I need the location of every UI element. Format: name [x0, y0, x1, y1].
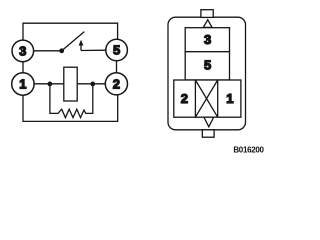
svg-text:5: 5 [113, 43, 120, 58]
svg-text:2: 2 [181, 91, 188, 106]
wire: terminal 1 through coil to terminal 2 [34, 83, 105, 85]
wire: bottom loop terminal 1 to terminal 2 [23, 95, 118, 122]
node: junction dot at terminal 1 side of coil [48, 82, 53, 87]
terminal cavity 3 [185, 28, 229, 52]
cavity divider right [217, 80, 219, 117]
terminal 1 [12, 73, 34, 95]
wire: terminal 3 to switch pivot [33, 50, 61, 52]
connector top mounting tab [201, 10, 213, 18]
svg-text:1: 1 [19, 77, 26, 92]
svg-text:B016200: B016200 [233, 146, 264, 155]
node: junction dot at terminal 2 side of coil [90, 82, 95, 87]
top index triangle [203, 20, 212, 28]
svg-text:3: 3 [204, 32, 211, 47]
bottom index triangle [204, 117, 214, 127]
relay coil [64, 67, 77, 101]
svg-text:1: 1 [226, 91, 233, 106]
switch actuation arrow [79, 40, 84, 51]
wire: terminal 5 to terminal 2 [116, 61, 118, 73]
keyway X mark [195, 80, 217, 117]
wire: switch arrow to terminal 5 [81, 49, 106, 51]
wire: terminal 3 to terminal 1 [22, 62, 24, 73]
svg-text:2: 2 [113, 76, 120, 91]
terminal row (cavities 2 and 1) [174, 80, 241, 117]
switch blade [62, 32, 85, 51]
terminal cavity 5 [185, 52, 229, 80]
resistor (zigzag across coil) [50, 84, 93, 118]
svg-text:5: 5 [204, 57, 211, 72]
terminal 5 [106, 39, 128, 61]
switch junction dot [59, 48, 64, 53]
cavity divider left [194, 80, 196, 117]
svg-text:3: 3 [19, 43, 26, 58]
wire: top loop from terminal 3 up across to terminal 5 [23, 23, 118, 40]
connector bottom mounting tab [202, 130, 214, 137]
terminal 3 [12, 40, 34, 62]
connector body [168, 17, 246, 130]
terminal 2 [105, 73, 127, 95]
